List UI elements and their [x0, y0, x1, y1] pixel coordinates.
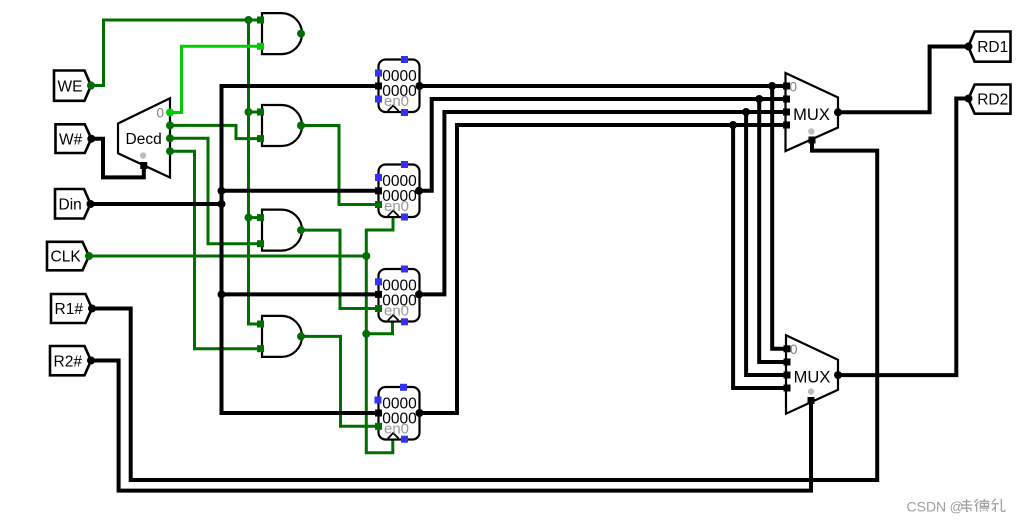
pin MUX2 in3	[784, 385, 791, 392]
svg-text:MUX: MUX	[794, 369, 831, 387]
wire WE pin to AND trunk	[91, 20, 262, 86]
pin reg3 enable	[375, 305, 382, 312]
svg-text:MUX: MUX	[793, 106, 830, 124]
node R2# pin tip	[87, 357, 95, 365]
node AND1 output	[297, 30, 305, 38]
wire branch to MUX2 input 0	[772, 86, 786, 349]
pin reg2 aux (unconnected)	[375, 174, 382, 181]
pin reg3 top (unconnected)	[401, 266, 408, 273]
junction clock to reg3	[362, 330, 370, 338]
AND gate 1 (reg1 write enable)	[262, 13, 302, 54]
wire reg1 Q to MUX input 0	[420, 84, 786, 88]
node MUX1 output	[834, 108, 842, 116]
wire R1# to MUX1 select	[92, 140, 877, 480]
svg-text:0: 0	[790, 80, 798, 95]
pin AND1 input B (high)	[257, 43, 264, 50]
node decoder out0	[166, 109, 174, 117]
svg-text:en0: en0	[384, 93, 409, 110]
node AND3 output	[297, 226, 305, 234]
pin AND2 input B	[257, 135, 264, 142]
pin AND2 input A	[257, 109, 264, 116]
wire decoder out1 to AND2 input	[170, 125, 262, 138]
register 2 (0000)	[379, 165, 420, 218]
wire clock trunk down to reg4 clk	[366, 256, 393, 453]
node R1# pin tip	[88, 305, 96, 313]
pin reg3 aux (unconnected)	[375, 278, 382, 285]
node AND4 output	[297, 332, 305, 340]
node reg3 Q output	[415, 290, 423, 298]
pin reg1 top (unconnected)	[401, 56, 408, 63]
node WE pin tip	[87, 82, 95, 90]
AND gate 2 (reg2 write enable)	[262, 105, 302, 146]
node decoder out3	[166, 147, 174, 155]
svg-text:en0: en0	[384, 302, 409, 319]
wire decoder out2 to AND3 input	[170, 138, 262, 243]
wire R2# to MUX2 select	[91, 361, 811, 491]
pin MUX2 in1	[784, 359, 791, 366]
node MUX2 output	[834, 371, 842, 379]
svg-text:Decd: Decd	[126, 131, 162, 148]
wire reg3 Q to MUX input 2	[419, 112, 786, 294]
node CLK pin tip	[85, 252, 93, 260]
watermark CSDN @ author	[907, 499, 1006, 515]
wire AND2 output to reg2 enable	[301, 126, 379, 205]
pin decoder select	[140, 162, 147, 169]
pin reg1 D	[375, 83, 382, 90]
svg-text:RD2: RD2	[977, 92, 1008, 109]
wire AND4 output to reg4 enable	[301, 336, 379, 426]
input pin WE	[54, 71, 91, 101]
wire Din pin to data trunk	[91, 202, 222, 206]
junction Din to reg3	[218, 290, 226, 298]
svg-text:CLK: CLK	[51, 249, 82, 266]
node reg4 Q output	[416, 409, 424, 417]
wire Din branch to reg3 D	[222, 292, 379, 296]
svg-text:en0: en0	[384, 198, 409, 215]
wire Din branch to reg2 D	[222, 189, 379, 193]
node RD1 pin tip	[965, 43, 973, 51]
svg-text:W#: W#	[59, 131, 83, 148]
pin reg2 bottom (unconnected)	[401, 214, 408, 221]
pin reg2 D	[375, 187, 382, 194]
svg-text:@: @	[950, 499, 964, 515]
decoder Decd	[118, 98, 170, 177]
pin reg1 bottom (unconnected)	[401, 109, 408, 116]
wire MUX2 output to RD2	[838, 99, 969, 376]
pin reg4 D	[375, 410, 382, 417]
svg-text:R2#: R2#	[54, 353, 83, 370]
register 4 (0000)	[379, 387, 420, 440]
node Din pin tip	[87, 200, 95, 208]
wire decoder out3 to AND4 input	[170, 151, 262, 349]
junction bus to MUX2 in2	[742, 108, 750, 116]
pin MUX2 in0	[784, 345, 791, 352]
pin MUX1 select	[809, 137, 816, 144]
pin reg4 aux (unconnected)	[375, 397, 382, 404]
output pin RD2	[968, 85, 1010, 114]
junction Din to reg2	[218, 187, 226, 195]
wire W# pin to decoder select	[91, 139, 144, 178]
pin reg3 bottom (unconnected)	[401, 318, 408, 325]
register 1 (0000)	[379, 60, 420, 113]
pin AND3 input A	[257, 214, 264, 221]
AND gate 4 (reg4 write enable)	[262, 316, 302, 357]
pin AND1 input A	[257, 17, 264, 24]
multiplexer MUX1	[786, 73, 839, 151]
pin MUX1 in2	[783, 109, 790, 116]
junction bus to MUX2 in1	[755, 95, 763, 103]
node decoder out2	[166, 134, 174, 142]
svg-text:RD1: RD1	[977, 39, 1008, 56]
wire AND3 output to reg3 enable	[301, 230, 379, 308]
wire reg4 Q to MUX input 3	[420, 125, 786, 413]
junction clock trunk at CLK row	[362, 252, 370, 260]
node reg2 Q output	[415, 187, 423, 195]
wire decoder out0 to AND1 input (high)	[170, 46, 262, 112]
pin AND4 input B	[257, 345, 264, 352]
junction WE to AND2	[245, 108, 253, 116]
wire Din data trunk	[222, 86, 379, 413]
pin AND4 input A	[257, 321, 264, 328]
pin reg1 aux (unconnected)	[375, 70, 382, 77]
wire CLK pin to clock trunk	[89, 255, 366, 258]
wire branch to MUX2 input 2	[746, 112, 786, 375]
input pin CLK	[47, 242, 89, 270]
pin reg2 enable	[375, 201, 382, 208]
pin MUX2 select	[808, 397, 815, 404]
svg-text:0: 0	[790, 342, 798, 357]
svg-text:0: 0	[157, 105, 165, 120]
pin MUX1 in1	[783, 96, 790, 103]
wire branch to MUX2 input 1	[759, 99, 786, 362]
pin reg4 enable	[375, 423, 382, 430]
wire clock up to reg2 clk	[366, 217, 393, 257]
junction WE to AND3	[245, 214, 253, 222]
output pin RD1	[968, 32, 1010, 62]
wire branch to MUX2 input 3	[733, 125, 786, 388]
multiplexer MUX2	[786, 335, 838, 414]
input pin R1#	[51, 294, 92, 323]
junction bus to MUX2 in3	[729, 121, 737, 129]
pin reg3 D	[375, 291, 382, 298]
node decoder out1	[166, 121, 174, 129]
junction Din entry	[218, 200, 226, 208]
input pin Din	[55, 189, 91, 219]
pin reg4 top (unconnected)	[400, 384, 407, 391]
pin MUX1 in3	[783, 122, 790, 129]
wire reg2 Q to MUX input 1	[419, 99, 786, 191]
register 3 (0000)	[379, 269, 420, 322]
node W# pin tip	[87, 135, 95, 143]
junction bus to MUX2 in0	[768, 82, 776, 90]
pin reg2 top (unconnected)	[401, 161, 408, 168]
wire WE trunk vertical to AND4 input	[249, 20, 263, 324]
node reg1 Q output	[416, 82, 424, 90]
wire MUX1 output to RD1	[838, 47, 969, 113]
pin MUX2 in2	[784, 372, 791, 379]
svg-text:R1#: R1#	[55, 301, 84, 318]
wire clock branch to reg3 clk	[366, 321, 392, 334]
junction WE at AND1 input row	[245, 16, 253, 24]
node AND2 output	[297, 122, 305, 130]
AND gate 3 (reg3 write enable)	[262, 210, 302, 251]
svg-text:en0: en0	[384, 420, 409, 437]
svg-text:WE: WE	[58, 78, 83, 95]
pin reg4 bottom (unconnected)	[401, 436, 408, 443]
svg-text:Din: Din	[59, 196, 82, 213]
input pin W#	[56, 124, 92, 153]
wire WE branch to AND3 input	[249, 216, 263, 219]
wire WE branch to AND2 input	[249, 111, 263, 114]
pin reg1 enable (unconnected)	[375, 96, 382, 103]
input pin R2#	[50, 346, 91, 375]
pin AND3 input B	[257, 240, 264, 247]
node RD2 pin tip	[965, 95, 973, 103]
pin MUX1 in0	[783, 83, 790, 90]
svg-text:CSDN: CSDN	[907, 499, 947, 515]
